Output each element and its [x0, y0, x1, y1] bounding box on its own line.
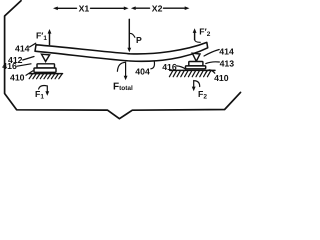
- svg-text:P: P: [136, 35, 142, 45]
- svg-text:F1: F1: [35, 89, 44, 101]
- svg-text:F′1: F′1: [36, 30, 47, 42]
- svg-text:X2: X2: [152, 4, 163, 14]
- svg-text:414: 414: [15, 44, 30, 54]
- svg-text:F′2: F′2: [199, 27, 210, 39]
- svg-text:414: 414: [219, 46, 234, 56]
- svg-text:404: 404: [135, 66, 150, 76]
- svg-text:410: 410: [10, 73, 25, 83]
- svg-text:Ftotal: Ftotal: [113, 82, 133, 93]
- svg-text:413: 413: [220, 58, 235, 68]
- svg-text:X1: X1: [79, 3, 90, 13]
- svg-text:416: 416: [2, 61, 17, 71]
- svg-text:F2: F2: [198, 89, 207, 101]
- svg-text:410: 410: [214, 73, 229, 83]
- svg-text:416: 416: [162, 62, 177, 72]
